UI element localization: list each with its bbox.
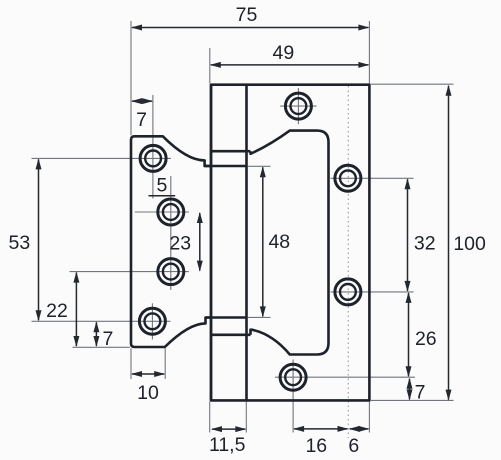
svg-text:48: 48: [268, 231, 290, 253]
svg-text:32: 32: [414, 233, 436, 255]
svg-text:75: 75: [236, 4, 258, 26]
svg-text:26: 26: [415, 328, 437, 350]
svg-text:7: 7: [415, 382, 426, 404]
svg-text:22: 22: [46, 300, 68, 322]
svg-text:16: 16: [305, 435, 327, 457]
svg-text:11,5: 11,5: [209, 434, 246, 456]
svg-text:7: 7: [136, 109, 147, 131]
svg-text:5: 5: [156, 175, 167, 197]
svg-text:23: 23: [169, 233, 191, 255]
svg-text:49: 49: [273, 42, 295, 64]
svg-text:53: 53: [9, 232, 31, 254]
svg-text:100: 100: [453, 233, 486, 255]
svg-text:6: 6: [348, 435, 359, 457]
svg-text:7: 7: [102, 328, 113, 350]
svg-text:10: 10: [137, 382, 159, 404]
